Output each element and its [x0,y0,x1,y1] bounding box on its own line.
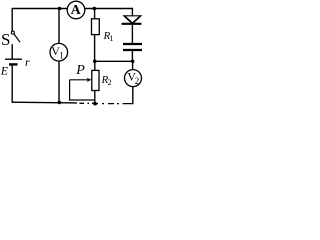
wire R2 lower vertical [94,91,96,104]
node junction dot top R1 branch [93,7,97,11]
svg-text:r: r [25,55,30,69]
battery E short plate [9,63,18,65]
switch S blade [14,34,20,42]
potentiometer wiper arrow [70,79,89,81]
svg-text:2: 2 [108,78,112,87]
wire R1 lower vertical [94,35,96,62]
wire bottom horizontal broken right part [96,103,134,105]
wire left vertical upper (to switch) [11,8,13,31]
node junction dot left of connector [93,60,97,64]
wire right vertical top (corner to diode) [131,8,133,16]
svg-text:P: P [75,63,85,78]
svg-text:2: 2 [135,76,140,86]
wiper bracket wire (wiper to bottom terminal) [70,80,95,100]
svg-text:1: 1 [59,51,64,61]
wire R2 upper vertical [94,61,96,70]
resistor R1 box [92,19,100,35]
diode D cathode bar [122,23,142,25]
resistor R2 box (potentiometer) [92,70,99,90]
wire capacitor to node [131,50,133,61]
wire top horizontal [12,8,133,10]
svg-text:A: A [71,3,82,18]
wire diode to capacitor [131,24,133,44]
voltmeter V2 circle [125,70,142,87]
wire bottom horizontal broken middle part [80,102,97,104]
wire node to voltmeter V2 [132,61,134,70]
svg-text:E: E [0,64,9,78]
ammeter A circle [67,1,85,19]
node junction dot bottom V1 branch [58,101,62,105]
capacitor bottom plate [123,49,142,51]
capacitor top plate [123,43,142,45]
wire connector horizontal [95,60,133,62]
voltmeter V1 circle [50,43,68,61]
switch S hinge circle [11,31,14,34]
wire R1 upper vertical [94,9,96,20]
battery E long plate [5,58,22,60]
wire V2 to bottom [132,87,134,104]
svg-text:1: 1 [110,34,114,43]
svg-text:S: S [1,30,10,49]
wire left vertical lower (battery to bottom) [11,64,13,103]
wire bottom horizontal solid left part [12,101,77,104]
node junction dot top V1 branch [58,7,62,11]
node junction dot bottom R2 [93,102,97,106]
wire V1 lower vertical [58,61,60,102]
diode D triangle [124,16,141,23]
wire between switch and battery [11,44,13,59]
wire V1 upper vertical [58,9,60,44]
node junction dot right of connector [131,60,135,64]
